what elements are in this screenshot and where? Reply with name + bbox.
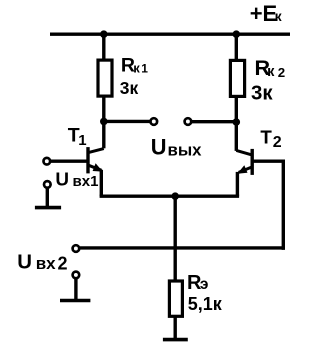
svg-text:U: U [17, 251, 32, 273]
svg-text:3к: 3к [251, 82, 273, 104]
wire: T1 collector to output terminal [104, 120, 150, 123]
wire: Uvx1 terminal to ground [46, 188, 49, 207]
ground: below Uvx2 [60, 299, 90, 303]
svg-text:вх: вх [36, 254, 56, 273]
resistor Rk1 [98, 60, 112, 96]
node: T1 collector junction [100, 118, 108, 126]
wire: Rk1 bottom to T1 collector [102, 96, 105, 148]
label Rk2 [255, 55, 286, 80]
label Uvx1 [55, 170, 98, 191]
wire: Uvx2 terminal to T2 base (horizontal) [80, 246, 283, 249]
terminal: Uvx1 lower input [44, 181, 51, 188]
svg-text:+E: +E [250, 1, 278, 26]
wire: +Ek power rail [50, 33, 290, 36]
svg-text:к: к [275, 8, 283, 24]
terminal: T1 base input [44, 158, 51, 165]
label +Ek [250, 1, 283, 26]
wire: right riser to T2 base [282, 161, 285, 250]
svg-text:1: 1 [141, 62, 148, 76]
node: T2 collector junction [233, 118, 241, 126]
terminal: Uvyh right output [185, 118, 192, 125]
wire: Rk2 bottom to T2 collector [235, 96, 238, 150]
svg-text:к: к [267, 64, 275, 80]
resistor Re [169, 281, 182, 316]
svg-text:T: T [260, 127, 272, 148]
svg-text:U: U [55, 170, 69, 191]
terminal: Uvx2 lower input [73, 272, 80, 279]
wire: output terminal to T2 collector [192, 120, 237, 123]
terminal: Uvx2 upper input [73, 245, 80, 252]
svg-text:5,1к: 5,1к [188, 294, 223, 314]
label Uvyh [151, 134, 202, 159]
node: rail / Rk1 junction [100, 30, 108, 38]
svg-text:э: э [200, 276, 209, 293]
label Uvx2 [17, 251, 67, 273]
ground: below Re [163, 338, 188, 342]
terminal: Uvyh left output [151, 118, 158, 125]
wire: common emitter rail [100, 194, 240, 197]
wire: Uvx2 lower terminal to ground [74, 279, 77, 301]
node: rail / Rk2 junction [233, 30, 241, 38]
label Rk1 [121, 55, 148, 77]
ground: below Uvx1 [35, 206, 61, 210]
wire: Re bottom to ground [173, 316, 176, 339]
wire: T2 base lead [252, 159, 285, 162]
resistor Rk2 [230, 60, 244, 96]
svg-text:вых: вых [168, 141, 203, 160]
svg-text:2: 2 [58, 253, 68, 273]
wire: T2 emitter down [236, 172, 239, 196]
svg-text:вх1: вх1 [73, 173, 99, 190]
wire: T1 emitter down [100, 170, 103, 196]
label T2 [260, 127, 281, 152]
transistor T2 [236, 149, 252, 175]
label T1 [68, 124, 87, 149]
wire: emitter junction down to Re [173, 196, 176, 281]
svg-text:к: к [133, 60, 140, 75]
svg-text:2: 2 [273, 134, 282, 151]
wire: rail to Rk2 top [235, 34, 238, 60]
svg-text:1: 1 [78, 132, 86, 149]
svg-text:U: U [151, 134, 167, 159]
svg-text:3к: 3к [120, 78, 139, 98]
node: emitter junction [171, 192, 179, 200]
transistor T1 [88, 147, 104, 173]
wire: T1 base lead [51, 159, 88, 162]
wire: rail to Rk1 top [102, 34, 105, 60]
label Re [187, 272, 208, 294]
svg-text:2: 2 [278, 65, 285, 80]
